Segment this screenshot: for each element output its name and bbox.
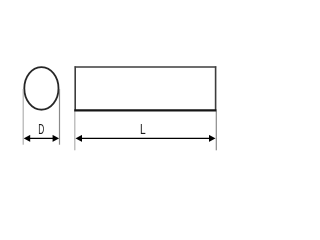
rectangle left edge — [74, 66, 76, 111]
extension line left of D — [22, 89, 24, 145]
rectangle right edge — [215, 66, 217, 111]
circle D (end view of cylinder) — [24, 67, 58, 110]
rectangle L (side view of cylinder) top edge — [74, 66, 216, 68]
arrowhead D left — [24, 135, 31, 142]
extension line right of D — [59, 89, 61, 145]
extension line right of L — [215, 112, 217, 151]
dimension line D — [28, 137, 55, 139]
arrowhead L right — [209, 135, 216, 142]
svg-text:D: D — [38, 122, 44, 138]
arrowhead D right — [53, 135, 60, 142]
svg-text:L: L — [140, 121, 146, 137]
dimension line L — [80, 137, 211, 139]
rectangle bottom edge — [74, 109, 216, 111]
extension line left of L — [74, 112, 76, 151]
arrowhead L left — [76, 135, 83, 142]
